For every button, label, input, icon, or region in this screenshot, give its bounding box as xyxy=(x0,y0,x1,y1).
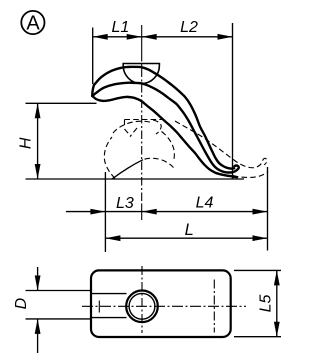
dome pad on top (thick) xyxy=(123,64,159,84)
svg-text:H: H xyxy=(17,137,34,149)
vertical centerline 2 xyxy=(213,280,215,333)
hook bottom edge xyxy=(92,96,237,177)
L3 left extension line xyxy=(104,172,106,252)
L4/L right extension line xyxy=(267,167,269,251)
hidden socket arc (upper circle) xyxy=(113,121,153,133)
D dimension xyxy=(26,267,92,353)
L3/L4 dimension line xyxy=(105,211,267,213)
extension line L1 left xyxy=(92,28,94,85)
H dimension line xyxy=(37,103,39,179)
baseline (H bottom extension) xyxy=(26,178,245,180)
hook middle edge xyxy=(92,83,239,173)
hidden V notch xyxy=(125,129,132,137)
hidden tail lower curve xyxy=(233,172,268,178)
arrow L3 outside left xyxy=(90,209,105,215)
hidden socket box top xyxy=(125,119,162,121)
L5 dimension line xyxy=(276,270,278,336)
arrow L2 right xyxy=(218,34,233,40)
D top extension line xyxy=(26,290,92,292)
extension line L2 right xyxy=(232,23,234,179)
arrow L right xyxy=(253,235,268,241)
D bottom extension line xyxy=(26,318,92,320)
slot top line xyxy=(91,293,127,295)
small center tick xyxy=(98,301,100,313)
hidden socket box right arc xyxy=(153,120,161,134)
centerline x=141.7 bottom solid xyxy=(141,204,143,220)
svg-text:L3: L3 xyxy=(116,195,134,212)
svg-text:A: A xyxy=(26,13,40,35)
L5 dimension xyxy=(234,270,281,336)
hidden V notch 2 xyxy=(130,128,137,137)
hidden ball arc right xyxy=(162,132,175,160)
arrow L4 left xyxy=(142,209,157,215)
svg-text:L1: L1 xyxy=(112,19,130,36)
hidden ball arc left xyxy=(104,137,115,179)
svg-text:L: L xyxy=(185,221,194,239)
D lower stub xyxy=(37,319,39,353)
L dimension line xyxy=(105,237,267,239)
svg-text:L5: L5 xyxy=(257,295,274,313)
hole outer circle xyxy=(126,291,158,323)
L5 bottom extension line xyxy=(234,336,281,338)
hidden groove continuation xyxy=(145,158,175,169)
arrow L1 left xyxy=(93,34,108,40)
horizontal centerline bottom view xyxy=(82,305,246,307)
H top extension line xyxy=(26,102,97,104)
hidden socket box left xyxy=(124,120,126,129)
hole inner circle xyxy=(129,293,155,319)
centerline x=141.7 dash-dot xyxy=(141,53,143,204)
arrow L5 top xyxy=(274,270,280,285)
arrow L4 right xyxy=(253,209,268,215)
view label balloon A xyxy=(21,11,44,34)
arrow D bottom (pointing up) xyxy=(35,319,41,334)
svg-text:L4: L4 xyxy=(196,195,214,212)
arrow L5 bottom xyxy=(274,322,280,337)
slot bottom line xyxy=(91,317,127,319)
hook top edge xyxy=(94,67,234,169)
dimension line L1/L2 xyxy=(93,36,233,38)
svg-text:L2: L2 xyxy=(180,19,198,36)
L3 outside stub xyxy=(66,211,105,213)
vertical centerline hole xyxy=(141,266,143,333)
centerline x=141.7 top solid xyxy=(141,25,143,53)
base plate rounded rect xyxy=(91,270,231,337)
arrow D top (pointing down) xyxy=(35,276,41,291)
arrow L1 right xyxy=(127,34,142,40)
hidden tail inner curve xyxy=(175,121,267,168)
hook left edge xyxy=(92,85,94,96)
arrow L2 left xyxy=(142,34,157,40)
groove line bottom left (thin solid) xyxy=(112,160,143,179)
arrow H bottom xyxy=(35,164,41,179)
svg-text:D: D xyxy=(13,297,30,309)
arrow L left xyxy=(105,235,120,241)
D upper stub xyxy=(37,267,39,291)
arrow H top xyxy=(35,103,41,118)
L5 top extension line xyxy=(234,269,281,271)
